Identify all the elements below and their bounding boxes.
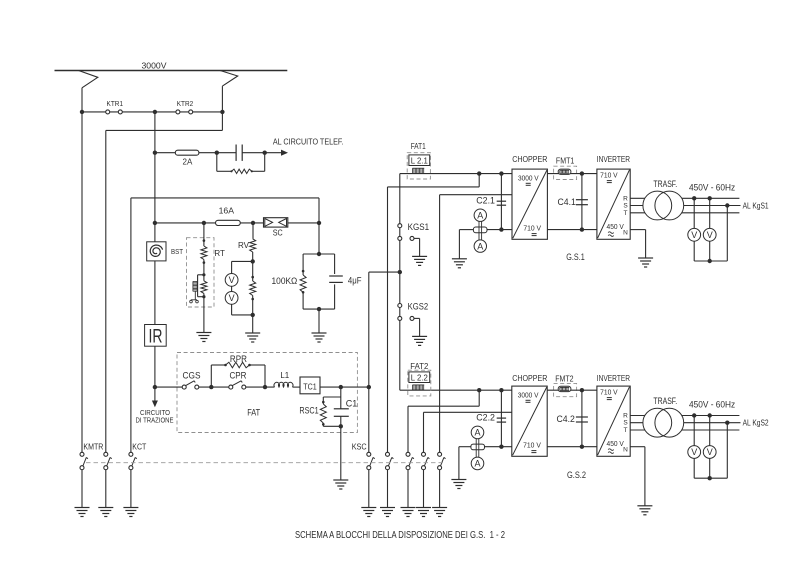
- enclosure FAT1 dashed box: [407, 153, 430, 179]
- svg-text:CPR: CPR: [230, 371, 247, 381]
- switch KGS1: [398, 224, 402, 228]
- svg-text:710 V: 710 V: [600, 390, 618, 397]
- node GS1 A-branch node: [477, 171, 481, 175]
- node loop bottom node: [317, 307, 321, 311]
- ground earthing switch 3: [401, 508, 416, 517]
- node GS1 C2.1 bottom node: [499, 227, 503, 231]
- svg-text:C2.2: C2.2: [476, 412, 495, 422]
- ammeter A1 GS2: [471, 426, 484, 439]
- wire GS1 dc link bottom: [547, 229, 597, 231]
- transformer TC1: [300, 377, 320, 394]
- wire RV top wire: [252, 223, 254, 239]
- svg-text:G.S.2: G.S.2: [567, 470, 586, 480]
- switch KGS2: [398, 304, 402, 308]
- svg-text:L 2.2: L 2.2: [411, 372, 428, 382]
- svg-text:V: V: [229, 275, 235, 285]
- wire loop ground wire: [318, 309, 320, 333]
- svg-text:3000 V: 3000 V: [518, 393, 539, 400]
- wire GS2 top line: [400, 389, 512, 391]
- svg-text:INVERTER: INVERTER: [597, 373, 630, 383]
- wire RV mid wire: [252, 252, 254, 281]
- node FAT output node: [367, 385, 371, 389]
- wire GS1 return bus: [487, 229, 512, 231]
- svg-text:V: V: [707, 230, 713, 240]
- svg-text:450 V: 450 V: [607, 224, 625, 231]
- wire 2A branch wires: [155, 152, 282, 154]
- surge arrester SC: [264, 218, 288, 227]
- svg-text:710 V: 710 V: [600, 173, 618, 180]
- enclosure FMT1 dashed box: [554, 166, 577, 179]
- voltmeter V2 KgS1: [703, 228, 716, 241]
- svg-text:N: N: [623, 230, 628, 237]
- node GS2 C4.2 bottom node: [580, 445, 584, 449]
- svg-text:SCHEMA A BLOCCHI DELLA DISPOSI: SCHEMA A BLOCCHI DELLA DISPOSIZIONE DEI …: [295, 530, 505, 541]
- svg-text:L1: L1: [280, 371, 289, 380]
- feeder kink left: [79, 71, 98, 88]
- node mid line node KgS2: [725, 421, 729, 425]
- wire KTR bus: [82, 111, 222, 113]
- node KGS mid node: [398, 270, 402, 274]
- wire switch4 link: [424, 412, 512, 452]
- ground GS2 return: [451, 480, 466, 489]
- contact RT thermostat: [194, 292, 196, 300]
- switch CGS: [182, 381, 199, 389]
- svg-text:450V - 60Hz: 450V - 60Hz: [689, 400, 735, 411]
- svg-text:AL KgS1: AL KgS1: [743, 201, 769, 210]
- capacitor C1: [334, 408, 349, 410]
- wire KGS line upper: [399, 174, 401, 391]
- wire RSC1 C1 branch: [323, 387, 341, 426]
- svg-text:KGS1: KGS1: [408, 222, 430, 232]
- svg-text:FAT2: FAT2: [410, 361, 428, 371]
- svg-text:RPR: RPR: [230, 354, 247, 364]
- svg-text:AL CIRCUITO TELEF.: AL CIRCUITO TELEF.: [273, 138, 344, 147]
- switch earthing switch 4: [422, 452, 430, 469]
- node RV lower node: [251, 313, 255, 317]
- ground RT: [196, 333, 211, 342]
- svg-text:INVERTER: INVERTER: [597, 154, 630, 164]
- svg-text:R: R: [623, 195, 628, 202]
- wire main vertical from KTR to BST: [154, 112, 156, 242]
- svg-text:2A: 2A: [183, 157, 193, 166]
- wire GS1 N wire: [630, 230, 645, 258]
- switch earthing switch 2: [386, 452, 394, 469]
- svg-text:CHOPPER: CHOPPER: [512, 373, 547, 383]
- wire GS1 dc link top: [547, 173, 597, 175]
- svg-text:C4.1: C4.1: [558, 197, 576, 207]
- wire earthing switch 5 ground wire: [439, 470, 441, 508]
- node KTR row right: [220, 110, 224, 114]
- converter INVERTER U2: [597, 169, 630, 239]
- wire voltmeter wires KgS1: [694, 198, 727, 261]
- node RV tap: [251, 221, 255, 225]
- wire earthing switch 3 ground wire: [407, 470, 409, 508]
- svg-text:G.S.1: G.S.1: [566, 252, 584, 262]
- svg-text:TRASF.: TRASF.: [653, 396, 677, 406]
- ground KCT: [123, 508, 138, 517]
- svg-text:KGS2: KGS2: [408, 302, 429, 312]
- node RSC1 top node: [339, 385, 343, 389]
- svg-text:C2.1: C2.1: [476, 195, 495, 205]
- svg-text:S: S: [623, 203, 628, 210]
- node V2 node KgS2: [708, 413, 712, 417]
- wire FAT main line: [155, 386, 369, 388]
- wire voltmeter wires KgS2: [694, 416, 727, 479]
- converter CHOPPER U3: [512, 386, 547, 456]
- capacitor C4.1: [581, 174, 583, 230]
- svg-text:RT: RT: [214, 249, 225, 258]
- ammeter A1: [474, 209, 486, 221]
- node GS2 C2.2 bottom node: [499, 445, 503, 449]
- switch KTR1 closed: [106, 110, 110, 114]
- svg-text:16A: 16A: [219, 207, 235, 216]
- wire loop frame: [303, 254, 335, 309]
- resistor RT lower: [201, 281, 207, 294]
- resistor telephone shunt: [232, 169, 252, 173]
- svg-text:DI TRAZIONE: DI TRAZIONE: [136, 417, 174, 424]
- svg-text:4μF: 4μF: [348, 276, 362, 286]
- node traction node: [153, 385, 157, 389]
- wire loop feed: [318, 223, 320, 254]
- node KTR row left: [80, 110, 84, 114]
- svg-text:450 V: 450 V: [607, 441, 625, 448]
- svg-text:FMT1: FMT1: [556, 156, 575, 166]
- ground RV: [245, 333, 260, 342]
- node V1 node KgS2: [692, 413, 696, 417]
- ground earthing switch 5: [432, 508, 447, 517]
- reactor L2.1: [409, 155, 430, 166]
- svg-text:R: R: [623, 412, 628, 419]
- svg-text:710 V: 710 V: [523, 443, 541, 450]
- arrow to traction circuit: [154, 387, 156, 401]
- resistor RPR: [226, 362, 250, 368]
- svg-text:T: T: [624, 210, 628, 217]
- transformer TRASF KgS2: [643, 408, 672, 437]
- node KTR mid junction: [153, 110, 157, 114]
- svg-text:TRASF.: TRASF.: [653, 179, 677, 189]
- voltmeter V lower: [225, 292, 238, 305]
- svg-text:KCT: KCT: [132, 442, 146, 452]
- inductor L1: [274, 382, 293, 387]
- ground GS1 N: [638, 258, 653, 267]
- resistor RSC1: [320, 404, 326, 423]
- svg-text:C4.2: C4.2: [557, 414, 575, 424]
- svg-text:N: N: [623, 447, 628, 454]
- capacitor telephone coupling: [235, 145, 237, 161]
- node GS1 C2.1 node: [499, 171, 503, 175]
- switch feeder mid: [104, 452, 112, 469]
- svg-text:A: A: [474, 459, 480, 469]
- node voltmeter bus node KgS2: [708, 476, 712, 480]
- svg-text:T: T: [624, 427, 628, 434]
- wire mid switch ground wire: [105, 470, 107, 508]
- feeder kink right: [220, 71, 238, 87]
- wire KSC vertical: [369, 272, 400, 452]
- svg-text:RV: RV: [238, 241, 250, 250]
- wire GS1 return ground wire: [459, 230, 473, 259]
- switch KCT: [129, 452, 137, 469]
- svg-text:V: V: [229, 293, 235, 303]
- enclosure RT dashed box: [187, 238, 215, 307]
- switch CPR: [229, 381, 246, 389]
- svg-text:L 2.1: L 2.1: [411, 155, 428, 165]
- ground earthing switch 4: [416, 508, 431, 517]
- mechanical link dashed line: [86, 462, 446, 464]
- switch mid feeder: [0, 0, 1, 1]
- wire switch3 link: [408, 390, 479, 452]
- wire KGS1 earth wire: [414, 238, 420, 256]
- svg-text:A: A: [474, 428, 480, 438]
- svg-text:FAT1: FAT1: [411, 141, 426, 151]
- enclosure FAT2 dashed box: [408, 370, 431, 396]
- wire switch5 link: [440, 195, 512, 453]
- wire RT mid wire: [203, 260, 205, 281]
- transformer TRASF KgS1 mask: [643, 191, 672, 220]
- node GS1 C4.1 bottom node: [580, 227, 584, 231]
- switch earthing switch 3: [406, 452, 414, 469]
- voltmeter V2 KgS2: [703, 446, 716, 459]
- svg-text:FMT2: FMT2: [555, 373, 574, 383]
- node RPR left node: [209, 385, 213, 389]
- node voltmeter bus node KgS1: [708, 259, 712, 263]
- ground C1 branch: [333, 480, 348, 489]
- node RSC1 bottom node: [339, 424, 343, 428]
- wire KMTR ground wire: [81, 470, 83, 508]
- svg-text:450V - 60Hz: 450V - 60Hz: [689, 182, 735, 193]
- switch KSC: [367, 452, 375, 469]
- voltmeter V1 KgS1: [688, 228, 701, 241]
- ground earthing switch 2: [380, 508, 395, 517]
- node V2 node KgS1: [708, 196, 712, 200]
- reactor L2.2: [409, 372, 430, 383]
- capacitor C4.2: [581, 390, 583, 447]
- node RV upper node: [251, 259, 255, 263]
- node RT tap: [202, 221, 206, 225]
- resistor RT upper: [201, 246, 207, 260]
- svg-text:100KΩ: 100KΩ: [272, 276, 298, 286]
- node GS2 C4.2 top node: [580, 388, 584, 392]
- wire C1 ground wire: [340, 426, 342, 480]
- wire GS2 dc link top: [547, 389, 597, 391]
- transformer TRASF KgS1: [643, 191, 672, 220]
- wire earthing switch 4 ground wire: [423, 470, 425, 508]
- svg-text:TC1: TC1: [303, 381, 317, 391]
- wire main vertical BST to IR: [154, 261, 156, 325]
- ammeter leads GS1: [478, 221, 480, 240]
- node V1 node KgS1: [692, 196, 696, 200]
- wire left feeder drop to KMTR: [81, 88, 83, 452]
- wire 16A row: [155, 222, 319, 224]
- ground KGS2: [412, 336, 427, 345]
- enclosure FMT2 dashed box: [554, 383, 577, 396]
- wire RT ground wire: [203, 293, 205, 332]
- svg-text:A: A: [477, 210, 483, 220]
- wire telef resistor branch: [217, 153, 265, 172]
- relay IR: [145, 325, 167, 347]
- svg-text:CIRCUITO: CIRCUITO: [140, 410, 170, 417]
- node 2A branch tap: [153, 151, 157, 155]
- wire KSC ground wire: [368, 470, 370, 508]
- svg-text:V: V: [691, 447, 697, 457]
- wire three-phase lines KgS2: [630, 416, 740, 431]
- switch earthing switch 5: [438, 452, 446, 469]
- ammeter leads GS2: [475, 439, 477, 457]
- ammeter A2: [474, 240, 486, 252]
- capacitor C2.2: [500, 390, 502, 447]
- wire RT parallel coil branch: [198, 275, 204, 297]
- svg-text:AL KgS2: AL KgS2: [743, 419, 769, 428]
- reactor feed corner: [399, 389, 401, 391]
- svg-text:S: S: [623, 420, 628, 427]
- node 16A row right: [317, 221, 321, 225]
- wire GS1 top line: [400, 173, 512, 175]
- wire right feeder drop and branch to mid switch: [106, 86, 223, 452]
- node GS2 C2.2 node: [499, 388, 503, 392]
- wire KGS2 earth wire: [414, 318, 420, 336]
- wire RV bottom wire: [252, 296, 254, 334]
- node loop top node: [317, 252, 321, 256]
- node GS2 A-branch node: [477, 388, 481, 392]
- svg-text:710 V: 710 V: [523, 226, 541, 233]
- arrow to telephone circuit: [281, 150, 288, 156]
- wire frame line to KCT: [131, 198, 319, 452]
- fuse FMT2: [558, 386, 571, 391]
- node telef cap left node: [215, 151, 219, 155]
- svg-text:FAT: FAT: [247, 408, 260, 418]
- fuse 2A: [175, 150, 199, 155]
- wire RT top wire: [203, 223, 205, 246]
- ground KSC: [361, 508, 376, 517]
- voltmeter V upper: [225, 274, 238, 287]
- transducer BST: [147, 242, 166, 261]
- node 16A row left: [153, 221, 157, 225]
- node RPR right node: [263, 385, 267, 389]
- ground KGS1: [412, 256, 427, 265]
- svg-text:3000 V: 3000 V: [518, 176, 539, 183]
- node telef cap right node: [263, 151, 267, 155]
- transformer TRASF KgS2 mask: [643, 408, 672, 437]
- bus 3000V catenary line: [55, 70, 288, 72]
- coil RT electromagnet: [193, 280, 197, 282]
- svg-text:RSC1: RSC1: [299, 406, 318, 416]
- wire GS2 return ground wire: [459, 447, 471, 480]
- svg-text:SC: SC: [273, 228, 283, 238]
- enclosure FAT dashed box: [177, 353, 357, 433]
- shunt GS2: [471, 444, 485, 450]
- wire three-phase lines KgS1: [630, 198, 740, 213]
- svg-text:KTR1: KTR1: [107, 101, 124, 108]
- switch KMTR: [80, 452, 88, 469]
- svg-text:KMTR: KMTR: [83, 442, 103, 452]
- capacitor 4uF: [329, 275, 343, 277]
- ground mid switch: [98, 508, 113, 517]
- wire RPR branch: [211, 365, 265, 387]
- ground GS2 N: [637, 506, 652, 515]
- fuse FMT1: [558, 169, 571, 174]
- ammeter A2 GS2: [471, 457, 484, 470]
- svg-text:C1: C1: [346, 399, 358, 409]
- wire switch2 link: [388, 174, 480, 453]
- wire GS2 dc link bottom: [547, 446, 597, 448]
- switch KTR2 closed: [176, 110, 180, 114]
- capacitor C2.1: [500, 174, 502, 230]
- wire main vertical IR to FAT node: [154, 346, 156, 387]
- wire KCT ground wire: [130, 470, 132, 508]
- svg-text:KTR2: KTR2: [177, 101, 194, 108]
- svg-text:V: V: [691, 230, 697, 240]
- converter INVERTER U4: [597, 386, 630, 456]
- svg-text:KSC: KSC: [352, 441, 367, 451]
- ground KMTR: [75, 508, 90, 517]
- wire GS2 N wire: [630, 447, 645, 506]
- wire voltmeter branch wires: [232, 261, 253, 315]
- svg-text:CGS: CGS: [183, 371, 201, 381]
- resistor RV lower: [250, 281, 256, 296]
- voltmeter V1 KgS2: [688, 446, 701, 459]
- fuse 16A: [216, 220, 241, 225]
- node GS1 C4.1 top node: [580, 171, 584, 175]
- svg-text:3000V: 3000V: [142, 61, 167, 71]
- svg-text:IR: IR: [149, 326, 163, 348]
- svg-text:V: V: [707, 447, 713, 457]
- wire earthing switch 2 ground wire: [387, 470, 389, 508]
- wire GS2 return bus: [485, 446, 512, 448]
- converter CHOPPER U1: [512, 169, 547, 239]
- resistor 100Kohm: [300, 275, 306, 292]
- svg-text:A: A: [477, 241, 483, 251]
- svg-text:CHOPPER: CHOPPER: [512, 154, 547, 164]
- ground GS1 return: [452, 259, 467, 268]
- resistor RV: [250, 239, 256, 252]
- shunt GS1: [473, 227, 487, 233]
- ground loop: [312, 333, 327, 342]
- svg-text:BST: BST: [171, 247, 183, 256]
- node mid line node KgS1: [725, 203, 729, 207]
